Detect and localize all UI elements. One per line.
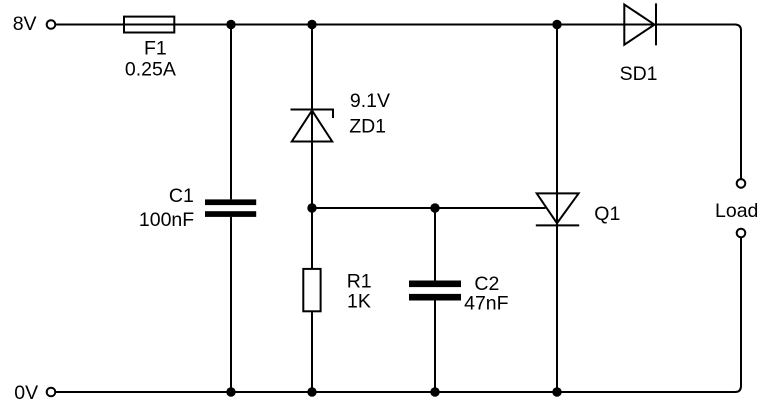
junction dot gate rail / ZD1 branch [307, 203, 316, 212]
zener ZD1 [291, 110, 334, 142]
wire C1 branch lower [230, 217, 232, 392]
junction dot bottom rail / R1 [307, 387, 316, 396]
wire Q1 branch [556, 25, 558, 393]
svg-text:SD1: SD1 [620, 63, 658, 85]
terminal 8V [47, 20, 56, 29]
svg-text:C2: C2 [474, 273, 499, 295]
wire C2 branch upper [434, 208, 436, 281]
svg-text:9.1V: 9.1V [350, 90, 390, 112]
svg-text:C1: C1 [169, 185, 194, 207]
junction dot bottom rail / C2 [430, 387, 439, 396]
svg-text:1K: 1K [347, 290, 371, 312]
load terminal upper [737, 179, 746, 188]
svg-text:0.25A: 0.25A [125, 59, 176, 81]
load terminal lower [737, 229, 746, 238]
wire ZD1/R1 branch upper [311, 25, 313, 269]
svg-text:F1: F1 [144, 38, 167, 60]
wire gate rail [312, 207, 546, 209]
resistor R1 [303, 269, 320, 311]
svg-text:R1: R1 [347, 271, 372, 293]
terminal 0V [47, 388, 56, 397]
diode SD1 [624, 3, 656, 45]
junction dot top rail / C1 [226, 20, 235, 29]
wire ZD1/R1 branch lower [311, 311, 313, 392]
svg-text:0V: 0V [14, 382, 38, 404]
svg-text:8V: 8V [13, 13, 37, 35]
thyristor Q1 [536, 193, 579, 225]
junction dot top rail / ZD1 [307, 20, 316, 29]
wire C2 branch lower [434, 301, 436, 393]
fuse F1 [124, 17, 174, 33]
junction dot top rail / Q1 [552, 20, 561, 29]
capacitor C2 [409, 281, 461, 301]
wire top rail from 8V terminal to top-right corner [56, 25, 741, 180]
svg-text:100nF: 100nF [139, 209, 194, 231]
svg-text:Q1: Q1 [594, 203, 620, 225]
junction dot gate rail / C2 branch [430, 203, 439, 212]
capacitor C1 [205, 199, 256, 217]
junction dot bottom rail / C1 [226, 387, 235, 396]
svg-text:47nF: 47nF [464, 293, 509, 315]
junction dot bottom rail / Q1 [552, 387, 561, 396]
wire right side lower to bottom rail [56, 237, 741, 392]
wire C1 branch upper [230, 25, 232, 200]
svg-text:Load: Load [715, 200, 758, 222]
svg-text:ZD1: ZD1 [349, 116, 386, 138]
